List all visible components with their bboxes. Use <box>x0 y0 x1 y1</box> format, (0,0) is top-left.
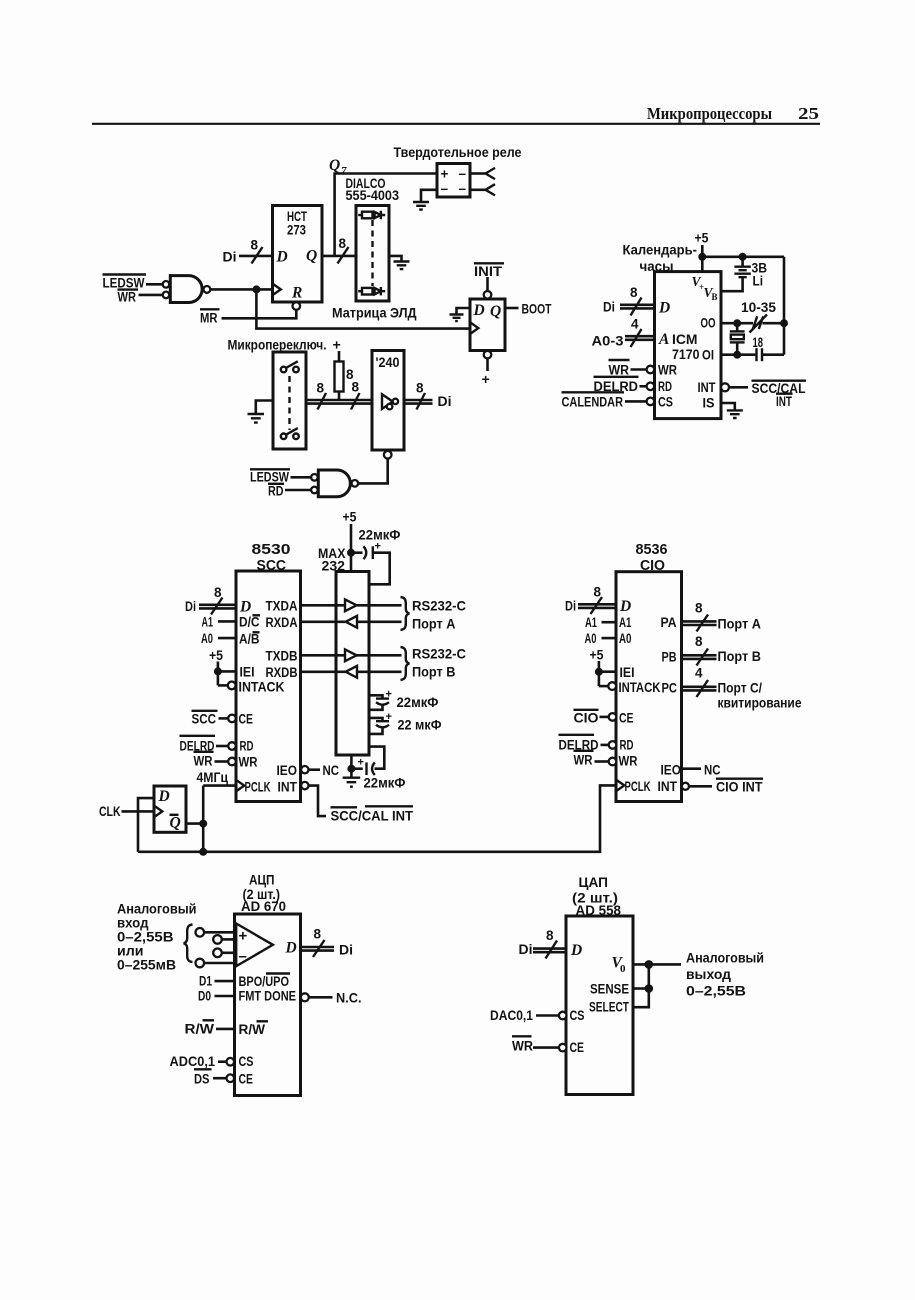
svg-text:TXDA: TXDA <box>266 599 298 614</box>
pin PCLK clock triangle of U8 <box>616 780 624 792</box>
svg-text:8530: 8530 <box>252 542 291 558</box>
svg-text:D: D <box>619 598 631 615</box>
svg-text:Порт С/: Порт С/ <box>718 681 763 697</box>
svg-text:CLK: CLK <box>99 804 121 819</box>
svg-text:WR: WR <box>574 753 593 768</box>
svg-text:D: D <box>570 942 582 959</box>
svg-text:8: 8 <box>339 236 347 251</box>
svg-text:SENSE: SENSE <box>590 982 629 997</box>
svg-text:CE: CE <box>570 1040 585 1055</box>
svg-text:CIO INT: CIO INT <box>716 780 763 795</box>
svg-text:BPO/UPO: BPO/UPO <box>239 974 290 989</box>
svg-text:Di: Di <box>185 599 196 614</box>
node +5 junction <box>698 253 706 261</box>
svg-text:CS: CS <box>570 1008 585 1023</box>
brace port A <box>401 597 410 630</box>
svg-text:Di: Di <box>438 394 452 409</box>
brace analog input <box>184 925 193 963</box>
svg-text:ADC0,1: ADC0,1 <box>170 1054 216 1069</box>
svg-text:CIO: CIO <box>574 711 599 726</box>
wire TXDA through driver <box>301 604 346 607</box>
pin WR of U5 <box>194 751 214 753</box>
svg-text:7170: 7170 <box>672 347 700 362</box>
svg-text:4: 4 <box>631 317 639 332</box>
svg-text:Di: Di <box>339 943 353 958</box>
svg-text:BOOT: BOOT <box>522 302 553 317</box>
pin RD of U8, DELRD <box>559 734 595 736</box>
LED top of matrix <box>358 214 362 216</box>
ground matrix <box>394 262 410 270</box>
svg-text:INTACK: INTACK <box>239 680 285 695</box>
svg-text:–: – <box>459 166 467 181</box>
svg-text:Di: Di <box>603 300 615 315</box>
svg-text:CS: CS <box>658 395 673 410</box>
svg-text:квитирование: квитирование <box>718 696 802 712</box>
pin clock of U2 <box>470 322 478 334</box>
svg-text:Аналоговый: Аналоговый <box>686 951 764 967</box>
battery B1 3V Li <box>741 257 744 267</box>
switch contact top <box>281 367 287 373</box>
svg-text:+: + <box>441 167 449 182</box>
svg-text:+: + <box>375 541 381 553</box>
svg-text:22мкФ: 22мкФ <box>397 695 439 711</box>
svg-text:+: + <box>358 757 364 769</box>
ground U6 <box>350 769 353 778</box>
wire U3 enable to G2 <box>358 459 388 484</box>
svg-text:–: – <box>239 948 247 965</box>
wire Q bus to LED matrix <box>322 255 356 258</box>
svg-text:SCC: SCC <box>192 712 217 727</box>
svg-text:Di: Di <box>565 599 576 614</box>
svg-text:Q: Q <box>170 815 181 832</box>
svg-text:8: 8 <box>630 285 638 300</box>
svg-text:PC: PC <box>662 681 678 696</box>
svg-text:+: + <box>239 928 248 945</box>
NAND gate G1 <box>163 281 170 288</box>
buffer U3 '240 <box>372 351 404 451</box>
pin RD of U5, DELRD <box>180 735 216 737</box>
header rule <box>92 123 820 125</box>
svg-text:IEO: IEO <box>277 763 298 778</box>
pin CE of U9, DS <box>194 1068 212 1070</box>
svg-text:Порт А: Порт А <box>412 617 456 633</box>
svg-text:D: D <box>473 302 485 319</box>
wire U2 bottom to plus <box>484 351 492 359</box>
wire U7 D input feedback <box>138 798 154 852</box>
svg-text:R/W: R/W <box>185 1022 215 1037</box>
wire G1 output to HCT clock <box>210 288 272 291</box>
ground relay <box>413 202 429 210</box>
svg-text:R/W: R/W <box>239 1022 266 1037</box>
ground switch <box>248 414 265 423</box>
svg-text:WR: WR <box>658 363 677 378</box>
svg-text:NC: NC <box>323 763 340 778</box>
wire bottom feedback rail to CIO PCLK <box>138 785 616 851</box>
svg-text:Q: Q <box>306 248 317 265</box>
svg-text:+5: +5 <box>695 231 709 246</box>
svg-text:Календарь-: Календарь- <box>623 243 698 259</box>
svg-text:IEI: IEI <box>240 665 255 680</box>
wire +5 to IEI pin <box>218 670 236 673</box>
svg-text:+: + <box>482 372 490 388</box>
svg-text:D: D <box>285 940 297 957</box>
svg-text:D: D <box>276 249 288 266</box>
svg-text:WR: WR <box>512 1039 533 1054</box>
NAND gate G2 <box>311 474 318 481</box>
gate G2 input label RD <box>268 483 284 485</box>
crystal X1 <box>736 323 739 331</box>
gate G2 input label LEDSW <box>250 468 290 470</box>
pin CE of U5, SCC select <box>192 710 218 712</box>
wire relay output 2 <box>470 189 486 192</box>
terminal input 4 <box>196 959 205 968</box>
svg-text:IEI: IEI <box>620 665 635 680</box>
wire WR to G1 <box>139 294 163 297</box>
svg-text:OI: OI <box>702 348 714 363</box>
svg-text:INT: INT <box>776 394 793 409</box>
terminal input 3 <box>213 949 222 958</box>
svg-text:+: + <box>386 711 392 723</box>
svg-text:A0: A0 <box>619 631 632 646</box>
wire junction down to BOOT clock run <box>256 289 470 328</box>
svg-text:8: 8 <box>594 585 602 600</box>
svg-text:PCLK: PCLK <box>625 779 651 794</box>
pin CE of U10, WR <box>512 1035 532 1037</box>
terminal input 1 <box>196 928 205 937</box>
svg-text:8: 8 <box>352 380 360 395</box>
svg-text:Q: Q <box>490 303 501 320</box>
switch contact bottom <box>281 434 287 440</box>
svg-text:+5: +5 <box>590 648 604 663</box>
svg-text:4МГц: 4МГц <box>197 770 229 786</box>
svg-text:8: 8 <box>317 381 325 396</box>
wire LEDSW to G1 <box>146 283 163 286</box>
svg-text:A1: A1 <box>619 615 632 630</box>
svg-text:+5: +5 <box>343 510 357 525</box>
flip-flop U2 BOOT <box>474 262 504 264</box>
wire Q to BOOT label <box>505 307 519 310</box>
pin WR of U4 <box>609 359 630 361</box>
svg-text:8: 8 <box>314 927 322 942</box>
svg-text:RS232-C: RS232-C <box>412 647 466 662</box>
wire +5 into U4 <box>701 245 704 272</box>
node SCC/CAL INT label <box>331 806 358 808</box>
bus switch to buffer <box>306 399 372 402</box>
svg-text:273: 273 <box>287 223 306 238</box>
register U1 HCT273 <box>273 206 323 303</box>
svg-text:22 мкФ: 22 мкФ <box>398 718 442 734</box>
pin CS of U4 <box>562 391 625 393</box>
svg-text:A0-3: A0-3 <box>592 334 625 349</box>
svg-text:8: 8 <box>695 601 703 616</box>
svg-text:Q: Q <box>329 157 340 174</box>
svg-text:8: 8 <box>416 381 424 396</box>
wire right rail down to OO <box>783 257 786 323</box>
pin INT of U8 <box>682 783 689 790</box>
bus buffer to Di <box>404 399 433 402</box>
pin clock of U1 <box>273 284 281 296</box>
svg-text:CE: CE <box>239 1072 254 1087</box>
pin INT of U5 <box>301 782 308 789</box>
svg-text:PB: PB <box>662 650 677 665</box>
pin PCLK clock triangle <box>236 780 244 792</box>
svg-text:B: B <box>712 292 718 302</box>
svg-text:–: – <box>441 181 449 196</box>
wire Q7 to relay <box>335 174 437 256</box>
svg-text:A1: A1 <box>202 615 214 630</box>
svg-text:MR: MR <box>200 311 218 326</box>
svg-text:ЦАП: ЦАП <box>579 875 609 891</box>
svg-text:IS: IS <box>703 396 715 411</box>
svg-text:22мкФ: 22мкФ <box>364 776 406 792</box>
wire TXDB through driver <box>301 654 346 657</box>
LED bottom of matrix <box>358 290 362 292</box>
ground BOOT FF <box>450 315 464 322</box>
svg-text:SELECT: SELECT <box>589 1000 630 1015</box>
svg-text:PCLK: PCLK <box>245 780 271 795</box>
svg-text:CALENDAR: CALENDAR <box>562 395 624 410</box>
capacitor C5 22uF <box>369 718 383 721</box>
svg-text:Твердотельное реле: Твердотельное реле <box>394 145 522 161</box>
svg-text:WR: WR <box>609 363 630 378</box>
svg-text:RD: RD <box>240 739 254 754</box>
svg-text:LEDSW: LEDSW <box>250 470 289 485</box>
svg-text:8: 8 <box>546 928 554 943</box>
svg-text:CE: CE <box>619 711 634 726</box>
svg-text:–: – <box>459 181 467 196</box>
wire MR to R pin <box>222 310 297 319</box>
svg-text:RD: RD <box>268 484 284 499</box>
svg-text:RD: RD <box>658 379 672 394</box>
svg-text:+: + <box>386 689 392 701</box>
svg-text:A1: A1 <box>585 615 597 630</box>
svg-text:PA: PA <box>661 615 677 630</box>
svg-text:TXDB: TXDB <box>266 649 298 664</box>
svg-text:INT: INT <box>698 380 717 395</box>
svg-text:INTACK: INTACK <box>619 680 661 695</box>
svg-text:D: D <box>158 788 170 805</box>
svg-text:ICM: ICM <box>672 332 698 347</box>
capacitor C4 22uF <box>369 695 383 698</box>
wire matrix to ground <box>389 256 402 262</box>
svg-text:8: 8 <box>214 585 222 600</box>
svg-text:WR: WR <box>239 755 258 770</box>
wire +5 rail to right <box>702 255 784 258</box>
svg-text:10-35: 10-35 <box>741 300 776 315</box>
svg-text:выход: выход <box>686 967 731 983</box>
svg-text:D: D <box>239 599 251 616</box>
wire switch to ground <box>256 401 273 415</box>
svg-text:Матрица ЭЛД: Матрица ЭЛД <box>332 306 417 322</box>
svg-text:RD: RD <box>620 738 634 753</box>
svg-text:A0: A0 <box>585 631 597 646</box>
node MR label <box>200 308 220 310</box>
svg-text:8: 8 <box>695 634 703 649</box>
svg-text:A0: A0 <box>201 631 213 646</box>
pin WR of U8 <box>574 750 594 752</box>
wire RXDA through receiver <box>301 620 346 623</box>
svg-text:D0: D0 <box>198 989 211 1004</box>
pin PC port C bus <box>682 685 717 688</box>
pin CE of U8, CIO select <box>574 709 599 711</box>
gate G1 input label WR <box>118 288 139 290</box>
svg-text:Li: Li <box>753 274 764 289</box>
wire RXDB through receiver <box>301 670 346 673</box>
svg-text:8536: 8536 <box>636 542 668 558</box>
svg-text:25: 25 <box>798 104 819 123</box>
svg-text:RXDB: RXDB <box>266 665 298 680</box>
svg-text:R: R <box>291 285 302 302</box>
svg-text:RS232-C: RS232-C <box>412 599 466 614</box>
svg-text:8: 8 <box>251 238 259 253</box>
wire INT down to label <box>309 786 327 817</box>
wire relay to ground <box>421 190 437 202</box>
svg-text:4: 4 <box>695 666 703 681</box>
wire 4MHz to PCLK <box>203 784 236 787</box>
svg-text:Микропроцессоры: Микропроцессоры <box>647 104 772 123</box>
svg-text:CS: CS <box>239 1054 254 1069</box>
wire to INTACK bubble <box>599 685 608 688</box>
svg-text:DAC0,1: DAC0,1 <box>490 1008 533 1023</box>
ground IS <box>727 410 743 418</box>
svg-text:0–2,55В: 0–2,55В <box>686 984 746 1000</box>
svg-text:FMT DONE: FMT DONE <box>239 989 297 1004</box>
svg-text:WR: WR <box>619 754 638 769</box>
svg-text:+5: +5 <box>209 648 223 663</box>
node G1 output junction <box>252 285 260 293</box>
svg-text:SCC/CAL INT: SCC/CAL INT <box>331 809 414 824</box>
svg-text:Порт В: Порт В <box>718 649 762 665</box>
svg-text:N.C.: N.C. <box>336 991 362 1006</box>
svg-text:Порт А: Порт А <box>718 617 762 633</box>
wire +5 to IEI pin <box>599 670 616 673</box>
svg-text:D1: D1 <box>199 974 212 989</box>
pin enable bubble at U3 bottom <box>384 451 392 459</box>
svg-text:DS: DS <box>194 1072 210 1087</box>
svg-text:IEO: IEO <box>661 763 682 778</box>
wire to INTACK bubble <box>218 684 228 687</box>
svg-text:18: 18 <box>753 335 764 350</box>
svg-text:OO: OO <box>701 316 716 331</box>
svg-text:INT: INT <box>278 780 298 795</box>
svg-text:555-4003: 555-4003 <box>346 188 400 203</box>
svg-text:INT: INT <box>658 779 678 794</box>
buffer triangle inside U3 <box>382 394 393 409</box>
wire Q to 4MHz rail and bottom rail <box>202 786 205 852</box>
svg-text:WR: WR <box>118 289 137 304</box>
svg-text:CE: CE <box>239 712 254 727</box>
gate G1 input label LEDSW <box>103 273 147 275</box>
wire U7 Q out <box>186 822 203 825</box>
svg-text:NC: NC <box>704 763 721 778</box>
node SCC/CAL INT label <box>752 380 807 382</box>
svg-text:AD 670: AD 670 <box>241 898 286 914</box>
bus slash 8 left <box>318 393 327 410</box>
svg-text:A: A <box>658 331 669 348</box>
bus slash 8 right <box>351 393 360 410</box>
op-amp triangle inside U9 <box>236 924 273 967</box>
brace port B <box>401 647 410 680</box>
svg-text:0: 0 <box>620 963 626 975</box>
capacitor C6 22uF V- <box>351 767 362 770</box>
svg-text:Di: Di <box>519 942 533 957</box>
svg-text:D/C: D/C <box>239 615 260 630</box>
svg-text:D: D <box>658 300 670 317</box>
svg-text:WR: WR <box>194 754 213 769</box>
svg-text:INIT: INIT <box>474 264 503 279</box>
svg-text:RXDA: RXDA <box>266 615 298 630</box>
svg-text:A/B: A/B <box>239 632 260 647</box>
terminal input 2 <box>213 935 222 944</box>
wire U6 ground pin <box>350 755 353 769</box>
svg-text:LEDSW: LEDSW <box>103 276 145 291</box>
svg-text:0–255мВ: 0–255мВ <box>117 958 176 974</box>
node CIO INT label <box>716 778 763 780</box>
svg-text:Di: Di <box>223 250 237 265</box>
pin RD of U4 <box>594 376 639 378</box>
wire BOOT FF D to ground <box>457 308 471 315</box>
wire relay output 1 <box>470 172 486 175</box>
svg-text:'240: '240 <box>376 355 400 370</box>
svg-text:Порт В: Порт В <box>412 665 456 681</box>
